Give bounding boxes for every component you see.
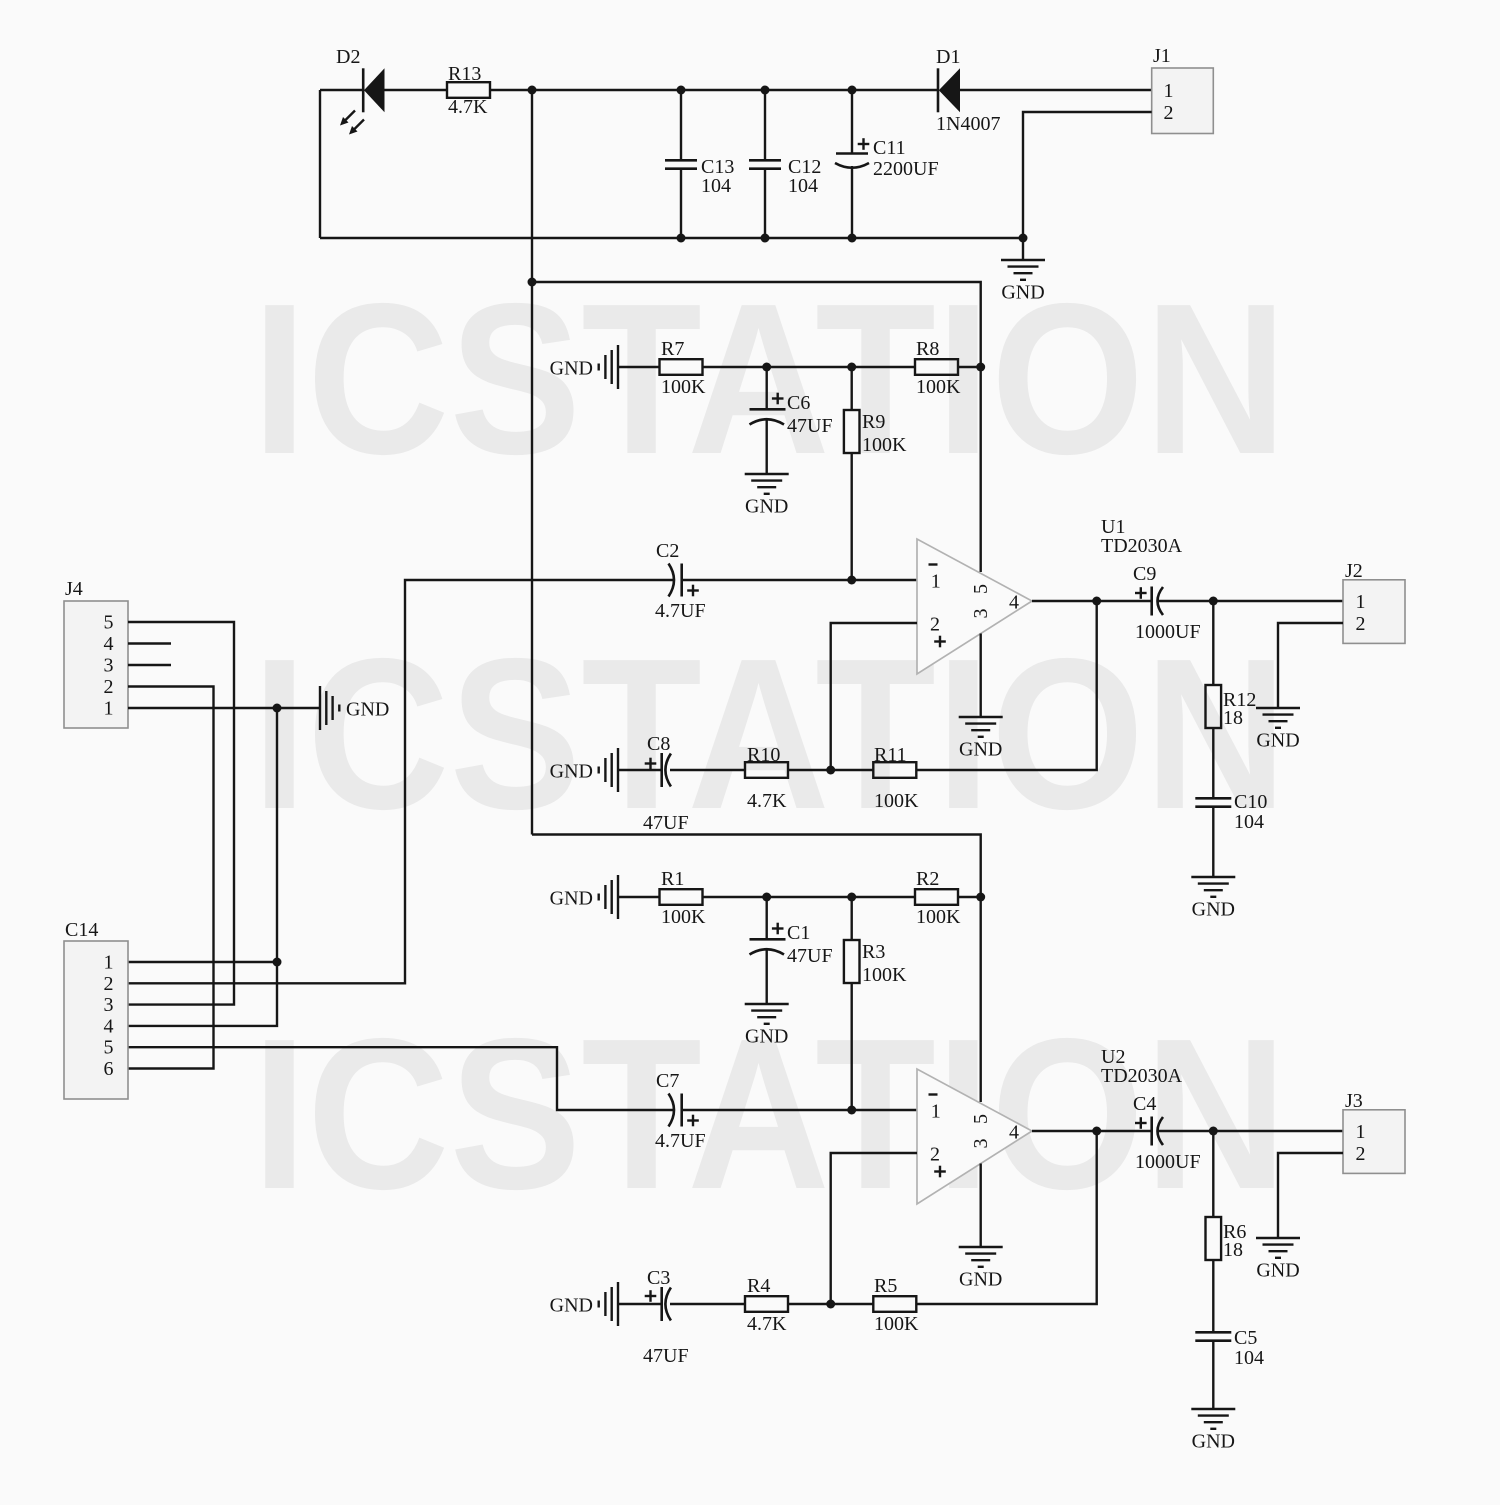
svg-text:5: 5: [970, 584, 992, 594]
ground GND below C1: [745, 1004, 789, 1048]
capacitor C3 47UF: [618, 1267, 689, 1367]
wire C8 to R10: [670, 769, 745, 771]
capacitor C10 104: [1195, 791, 1267, 877]
svg-text:4: 4: [104, 1015, 114, 1037]
wire +V vertical x532: [531, 90, 533, 835]
node R8 right on +V: [976, 363, 985, 372]
capacitor C8 47UF: [618, 733, 689, 834]
wire R1 to R2: [703, 896, 916, 898]
resistor R13: [447, 63, 490, 118]
svg-text:47UF: 47UF: [643, 1345, 689, 1367]
svg-text:GND: GND: [550, 358, 593, 380]
wire R7 to R8: [703, 366, 916, 368]
resistor R10 4.7K: [745, 744, 788, 812]
node C12 bottom: [761, 234, 770, 243]
node output junction U2: [1092, 1127, 1101, 1136]
resistor R5 100K: [873, 1275, 919, 1335]
svg-text:18: 18: [1223, 1239, 1243, 1261]
svg-text:R10: R10: [747, 744, 780, 766]
resistor R6 18: [1206, 1131, 1247, 1332]
svg-text:2: 2: [1164, 102, 1174, 124]
svg-text:C14: C14: [65, 919, 98, 941]
svg-text:D1: D1: [936, 46, 960, 68]
wire gnd to R7: [618, 366, 660, 368]
node +V tap for U1: [528, 278, 537, 287]
svg-text:100K: 100K: [916, 376, 961, 398]
svg-text:2: 2: [930, 1144, 940, 1166]
capacitor C12: [749, 90, 821, 238]
wire R10 to R11: [788, 769, 873, 771]
svg-text:47UF: 47UF: [787, 415, 833, 437]
wire +V feed U1: [532, 282, 981, 572]
wire C7 to pin1: [682, 1109, 917, 1111]
svg-text:100K: 100K: [862, 964, 907, 986]
svg-text:R4: R4: [747, 1275, 770, 1297]
node J4 pin1 junction: [273, 704, 282, 713]
ground sideways at R7: [550, 345, 618, 389]
node non-inverting feed: [826, 766, 835, 775]
svg-text:J4: J4: [65, 578, 83, 600]
capacitor C5 104: [1195, 1327, 1264, 1409]
svg-text:GND: GND: [745, 496, 788, 518]
wire left vertical: [319, 90, 321, 238]
svg-text:R11: R11: [874, 744, 907, 766]
resistor R11 100K: [873, 744, 919, 812]
svg-text:GND: GND: [550, 888, 593, 910]
svg-text:C6: C6: [787, 392, 810, 414]
svg-text:ICSTATION: ICSTATION: [252, 613, 1287, 854]
wire J4 pin2 to C14 pin6: [128, 687, 214, 1069]
svg-text:3: 3: [970, 1139, 992, 1149]
svg-text:2: 2: [1356, 1143, 1366, 1165]
wire ground bus down to C14: [128, 708, 277, 1026]
node inverting input U2: [847, 1106, 856, 1115]
resistor R3 100K: [844, 897, 907, 986]
svg-text:100K: 100K: [916, 906, 961, 928]
connector C14: [64, 919, 128, 1099]
svg-text:R1: R1: [661, 868, 684, 890]
wire R9 to inverting input node: [851, 453, 853, 580]
svg-text:C3: C3: [647, 1267, 670, 1289]
svg-text:100K: 100K: [661, 376, 706, 398]
ground sideways at C8: [550, 748, 618, 792]
svg-text:100K: 100K: [862, 434, 907, 456]
svg-text:3: 3: [970, 609, 992, 619]
wire feedback R5 to output: [917, 1131, 1097, 1304]
resistor R9 100K: [844, 367, 907, 456]
wire +V feed U2: [532, 835, 981, 1103]
resistor R7 100K: [660, 338, 707, 398]
resistor R2 100K: [915, 868, 961, 928]
svg-text:R8: R8: [916, 338, 939, 360]
svg-text:J2: J2: [1345, 560, 1363, 582]
op-amp U2 TD2030A: [917, 1046, 1183, 1204]
svg-text:C8: C8: [647, 733, 670, 755]
wire C2 to pin1: [682, 579, 917, 581]
svg-text:C11: C11: [873, 137, 906, 159]
capacitor C1 47UF: [750, 897, 833, 1004]
LED D2: [336, 46, 385, 135]
svg-text:2: 2: [1356, 613, 1366, 635]
svg-text:C4: C4: [1133, 1093, 1156, 1115]
wire J4 pin4 stub: [128, 642, 171, 644]
svg-text:GND: GND: [550, 761, 593, 783]
svg-text:1: 1: [931, 571, 941, 593]
svg-text:D2: D2: [336, 46, 360, 68]
wire R3 to inverting input node: [851, 983, 853, 1110]
node non-inverting feed U2: [826, 1300, 835, 1309]
svg-text:GND: GND: [1256, 1260, 1299, 1282]
svg-text:1: 1: [1164, 80, 1174, 102]
svg-text:2: 2: [104, 973, 114, 995]
svg-text:100K: 100K: [874, 1313, 919, 1335]
diode D1 1N4007: [936, 46, 1000, 135]
svg-text:GND: GND: [550, 1295, 593, 1317]
svg-text:2: 2: [104, 676, 114, 698]
svg-text:47UF: 47UF: [787, 945, 833, 967]
node R3 tap: [847, 893, 856, 902]
svg-text:5: 5: [970, 1114, 992, 1124]
node C14 pin1 junction: [273, 958, 282, 967]
svg-text:GND: GND: [1192, 1431, 1235, 1453]
ground GND power rail: [1001, 238, 1045, 304]
op-amp U1 TD2030A: [917, 516, 1183, 674]
svg-text:3: 3: [104, 994, 114, 1016]
capacitor C4 1000UF: [1133, 1093, 1201, 1173]
resistor R4 4.7K: [745, 1275, 788, 1335]
wire bottom ground rail: [320, 237, 1023, 239]
svg-text:R2: R2: [916, 868, 939, 890]
wire R8 to +V: [958, 366, 981, 368]
svg-text:100K: 100K: [874, 790, 919, 812]
svg-text:4.7UF: 4.7UF: [655, 600, 706, 622]
svg-text:3: 3: [104, 655, 114, 677]
ground GND pin3 U1: [959, 717, 1003, 761]
resistor R1 100K: [660, 868, 707, 928]
node C13 bottom: [677, 234, 686, 243]
node C1 tap: [762, 893, 771, 902]
svg-text:J3: J3: [1345, 1090, 1363, 1112]
wire C14 pin1: [128, 961, 277, 963]
node C6 tap: [762, 363, 771, 372]
capacitor C13: [665, 90, 734, 238]
ground GND below C10: [1191, 877, 1235, 921]
wire J3 pin2 to gnd: [1278, 1153, 1343, 1238]
wire output U2: [1032, 1130, 1343, 1132]
svg-text:R13: R13: [448, 63, 481, 85]
ground GND below C5: [1191, 1409, 1235, 1453]
ground GND below C6: [745, 474, 789, 518]
svg-text:5: 5: [104, 612, 114, 634]
svg-text:4.7UF: 4.7UF: [655, 1130, 706, 1152]
svg-text:4.7K: 4.7K: [448, 96, 488, 118]
svg-text:104: 104: [701, 175, 731, 197]
ground sideways at R1: [550, 875, 618, 919]
svg-text:2200UF: 2200UF: [873, 158, 939, 180]
connector J1: [1152, 45, 1214, 134]
capacitor C6 47UF: [750, 367, 833, 474]
wire pin3 to ground: [980, 1164, 982, 1248]
node C13 top: [677, 86, 686, 95]
svg-text:1: 1: [931, 1101, 941, 1123]
wire J4 pin1 to ground: [128, 707, 320, 709]
node R12 tap: [1209, 597, 1218, 606]
svg-text:GND: GND: [1256, 730, 1299, 752]
svg-text:2: 2: [930, 614, 940, 636]
svg-text:C10: C10: [1234, 791, 1267, 813]
node inverting input: [847, 576, 856, 585]
svg-text:R9: R9: [862, 411, 885, 433]
wire R2 to +V: [958, 896, 981, 898]
svg-text:1: 1: [1356, 1121, 1366, 1143]
wire R4 to R5: [788, 1303, 873, 1305]
svg-text:C9: C9: [1133, 563, 1156, 585]
svg-text:J1: J1: [1153, 45, 1171, 67]
ground GND J3: [1256, 1238, 1300, 1282]
wire to pin2: [831, 623, 917, 770]
svg-text:1: 1: [1356, 591, 1366, 613]
node C11 bottom: [848, 234, 857, 243]
svg-text:1000UF: 1000UF: [1135, 1151, 1201, 1173]
wire feedback R11 to output: [917, 601, 1097, 770]
node C12 top: [761, 86, 770, 95]
ground GND J2: [1256, 708, 1300, 752]
svg-text:4: 4: [1009, 1122, 1019, 1144]
ground sideways at C3: [550, 1282, 618, 1326]
svg-text:18: 18: [1223, 707, 1243, 729]
svg-text:104: 104: [788, 175, 818, 197]
svg-text:6: 6: [104, 1058, 114, 1080]
svg-text:104: 104: [1234, 811, 1264, 833]
resistor R12 18: [1206, 601, 1257, 798]
ground sideways J4: [320, 686, 389, 730]
connector J3: [1343, 1090, 1405, 1173]
wire input line from C14 pin5: [128, 1047, 673, 1110]
connector J4: [64, 578, 128, 728]
node R6 tap: [1209, 1127, 1218, 1136]
wire J2 pin2 to gnd: [1278, 623, 1343, 708]
wire pin3 to ground: [980, 634, 982, 718]
svg-text:GND: GND: [959, 739, 1002, 761]
svg-text:5: 5: [104, 1037, 114, 1059]
wire gnd to R1: [618, 896, 660, 898]
svg-text:47UF: 47UF: [643, 812, 689, 834]
wire J4 pin3 stub: [128, 664, 171, 666]
capacitor C11: [835, 90, 939, 238]
wire input line from C14 pin2: [128, 580, 673, 983]
svg-text:GND: GND: [346, 699, 389, 721]
node top rail junction x532: [528, 86, 537, 95]
svg-text:1: 1: [104, 952, 114, 974]
wire C3 to R4: [670, 1303, 745, 1305]
node C11 top: [848, 86, 857, 95]
svg-text:1: 1: [104, 698, 114, 720]
svg-text:R7: R7: [661, 338, 684, 360]
node output junction: [1092, 597, 1101, 606]
ground GND pin3 U2: [959, 1247, 1003, 1291]
svg-text:100K: 100K: [661, 906, 706, 928]
capacitor C7 4.7UF: [655, 1070, 706, 1152]
svg-text:4.7K: 4.7K: [747, 1313, 787, 1335]
svg-text:C7: C7: [656, 1070, 679, 1092]
capacitor C2 4.7UF: [655, 540, 706, 622]
wire J1 pin2 to ground rail: [1023, 112, 1152, 238]
svg-text:C5: C5: [1234, 1327, 1257, 1349]
node ground rail J1: [1019, 234, 1028, 243]
svg-text:R3: R3: [862, 941, 885, 963]
svg-text:ICSTATION: ICSTATION: [252, 258, 1287, 499]
svg-text:TD2030A: TD2030A: [1101, 535, 1183, 557]
svg-text:4: 4: [104, 633, 114, 655]
node R2 right on +V: [976, 893, 985, 902]
svg-text:C2: C2: [656, 540, 679, 562]
svg-text:1N4007: 1N4007: [936, 113, 1000, 135]
svg-text:GND: GND: [1001, 282, 1044, 304]
capacitor C9 1000UF: [1133, 563, 1201, 643]
node R9 tap: [847, 363, 856, 372]
wire top rail segments: [320, 89, 1152, 91]
svg-text:4.7K: 4.7K: [747, 790, 787, 812]
resistor R8 100K: [915, 338, 961, 398]
wire J4 pin5 to C14 pin3: [128, 622, 234, 1005]
svg-text:R5: R5: [874, 1275, 897, 1297]
wire to pin2 U2: [831, 1153, 917, 1304]
svg-text:4: 4: [1009, 592, 1019, 614]
svg-text:GND: GND: [1192, 899, 1235, 921]
svg-text:104: 104: [1234, 1347, 1264, 1369]
svg-text:GND: GND: [745, 1026, 788, 1048]
svg-text:GND: GND: [959, 1269, 1002, 1291]
svg-text:1000UF: 1000UF: [1135, 621, 1201, 643]
wire output: [1032, 600, 1343, 602]
connector J2: [1343, 560, 1405, 643]
svg-text:TD2030A: TD2030A: [1101, 1065, 1183, 1087]
svg-text:C1: C1: [787, 922, 810, 944]
